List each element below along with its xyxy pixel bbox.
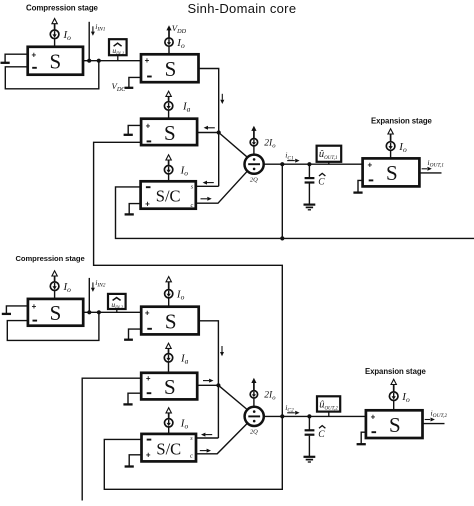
annotation arrow out of c-pin (right)	[201, 198, 208, 200]
capacitor C2-hat	[307, 414, 311, 418]
svg-text:Compression stage: Compression stage	[16, 254, 85, 263]
wire: uOUT1 box stem	[328, 162, 330, 164]
svg-text:+: +	[31, 51, 36, 60]
wire: U4 - input feedback from node C1, runs to right edge	[116, 187, 474, 239]
junction node C1	[280, 162, 284, 166]
S block U12 expansion stage (bottom)	[366, 410, 423, 438]
wire: diagonal node B1 to divider U5	[219, 133, 248, 158]
svg-text:S/C: S/C	[156, 187, 181, 206]
svg-text:S: S	[50, 301, 62, 325]
annotation arrow into s-pin of U10 (left)	[205, 434, 212, 436]
pin - of U9	[147, 392, 152, 394]
wire: uOUT2 box stem	[328, 412, 330, 417]
wire: U7 output node A2	[83, 311, 141, 313]
svg-text:S: S	[164, 121, 176, 145]
current source Io of S/C block U4 (top)	[168, 174, 170, 181]
two-quadrant divider U11 (bottom)	[245, 407, 264, 426]
annotation arrow into s-pin (left)	[207, 182, 214, 184]
wire: uIN2 box stem	[116, 309, 118, 312]
svg-text:+: +	[146, 451, 151, 460]
current source Io of S/C block U10 (bottom)	[168, 427, 170, 434]
wire: iIN2 injection line	[88, 278, 90, 312]
pin - of U7	[33, 320, 38, 322]
svg-text:2Q: 2Q	[250, 429, 258, 436]
voltage probe box uOUT1	[317, 146, 342, 162]
annotation arrow into U3 right side (left)	[208, 127, 215, 129]
pin - of U6	[369, 179, 374, 181]
pin - of U12	[372, 431, 377, 433]
wire: s-pin of U10 from node B2 vertical	[196, 437, 218, 439]
svg-text:+: +	[32, 302, 37, 311]
current source 2Io of divider U11 (bottom)	[253, 398, 255, 407]
svg-text:S: S	[386, 161, 398, 185]
wire: U10 - input feedback from node C2	[104, 416, 282, 489]
annotation arrow iOUT2 (right)	[425, 419, 430, 421]
svg-text:Expansion stage: Expansion stage	[365, 367, 427, 376]
S/C block U4 (top)	[141, 181, 196, 208]
junction node A2 dot 2	[97, 310, 101, 314]
wire: diagonal node B2 to divider U11	[218, 385, 247, 409]
wire: U3 output to node B1	[197, 132, 219, 134]
current source Io of S block U8 (bottom)	[168, 298, 170, 307]
svg-text:+: +	[371, 413, 376, 422]
svg-text:+: +	[145, 308, 150, 317]
label C2-hat	[319, 426, 325, 429]
wire: divider U5 output to expansion stage, node C1	[264, 163, 363, 165]
wire: node C1 drop to feedback line	[281, 164, 283, 238]
S/C block U10 (bottom)	[142, 434, 197, 462]
ground terminal of U6 (- input)	[358, 180, 363, 192]
annotation arrow on U8 output (down)	[221, 346, 223, 352]
current source Ia of S block U9 (bottom)	[168, 362, 170, 373]
pin - of U3	[147, 140, 152, 142]
wire: c-pin of U4 to divider U5 (diagonal)	[196, 171, 248, 203]
svg-text:Expansion stage: Expansion stage	[371, 116, 433, 125]
current source Io of expansion S block U6 (top)	[390, 150, 392, 158]
pin - of U2	[147, 76, 152, 78]
svg-text:S: S	[165, 309, 177, 333]
ground terminal of U3 (+ input)	[128, 125, 141, 134]
S block U9 (bottom)	[141, 373, 197, 400]
VDC terminal of U8 (- input)	[129, 329, 142, 339]
svg-text:+: +	[146, 121, 151, 130]
ground terminal of U10 (+ input)	[129, 455, 141, 466]
svg-text:S: S	[165, 57, 177, 81]
svg-text:C: C	[318, 178, 325, 188]
annotation arrow on U2 output (down)	[221, 94, 223, 100]
wire: c-pin of U10 to divider U11 (diagonal)	[196, 423, 247, 454]
input terminal of U7 (+ input)	[6, 306, 28, 314]
svg-text:S/C: S/C	[156, 439, 181, 458]
pin - of U8	[147, 328, 152, 330]
current source Io with VDD of S block U2 (top)	[168, 46, 170, 54]
svg-text:2Q: 2Q	[250, 176, 258, 183]
svg-text:c: c	[190, 453, 193, 460]
svg-text:+: +	[146, 374, 151, 383]
wire: U8 output down to node B2 and S/C2 s-pin	[199, 321, 219, 438]
S block U7 compression stage (bottom)	[28, 299, 83, 326]
ground of capacitor C1-hat	[304, 204, 316, 206]
wire: s-pin of U4 from node B1 vertical	[196, 185, 219, 187]
svg-text:S: S	[389, 413, 401, 437]
feedback wire of U1 (- input loop)	[5, 61, 99, 89]
VDC terminal of U2 (- input)	[129, 77, 141, 87]
S block U6 expansion stage (top)	[363, 158, 420, 186]
wire: iOUT2 output of U12	[423, 423, 445, 425]
svg-text:+: +	[145, 56, 150, 65]
svg-text:+: +	[145, 199, 150, 208]
ground of capacitor C2-hat	[304, 456, 316, 458]
svg-text:S: S	[49, 50, 61, 74]
S block U2 (top, first integrator input cell)	[141, 54, 199, 82]
annotation arrow iC1 (right)	[287, 160, 295, 162]
annotation arrow out of c-pin of U10 (right)	[200, 450, 207, 452]
wire: U2 output down to node B1 and S/C s-pin	[199, 69, 219, 187]
wire: iIN1 injection line	[88, 22, 90, 61]
svg-text:C: C	[318, 430, 325, 440]
ground terminal of U12 (- input)	[361, 432, 366, 444]
svg-text:c: c	[191, 202, 194, 209]
annotation arrow iC2 (right)	[287, 412, 295, 414]
ground terminal of U4 (+ input)	[129, 204, 140, 214]
voltage probe box uIN1	[109, 39, 127, 55]
junction node B2	[216, 383, 220, 387]
current source Ia of S block U3 (top)	[168, 110, 170, 119]
pin - of U1	[32, 67, 37, 69]
annotation arrow out of U9 right side (right)	[203, 380, 209, 382]
annotation arrow iIN2	[92, 282, 94, 288]
terminal of U9 (- input)	[128, 393, 141, 404]
svg-text:Compression stage: Compression stage	[26, 4, 99, 13]
junction node A1 dot 1	[87, 59, 91, 63]
current source 2Io of divider U5 (top)	[253, 146, 255, 155]
svg-text:Sinh-Domain core: Sinh-Domain core	[188, 1, 297, 16]
current source Io of compression S block (top)	[54, 39, 56, 47]
two-quadrant divider U5 (top)	[245, 155, 264, 174]
S block U1 compression stage (top)	[28, 47, 83, 75]
annotation arrow iOUT1 (right)	[422, 168, 427, 170]
junction dot C1 feedback	[280, 236, 284, 240]
current source Io of expansion S block U12 (bottom)	[393, 401, 395, 411]
wire: U9 output to node B2	[197, 384, 218, 386]
voltage probe box uOUT2	[317, 396, 340, 411]
wire: U1 output node A1	[83, 60, 141, 62]
junction node B1	[217, 130, 221, 134]
S block U8 (bottom, integrator input cell)	[141, 307, 199, 335]
wire: iOUT1 output of U6	[419, 172, 441, 174]
input terminal of U1 (+ input)	[5, 54, 28, 63]
junction node A2 dot 1	[87, 310, 91, 314]
feedback wire of U7 (- input loop)	[7, 312, 99, 340]
S block U3 (top)	[141, 119, 197, 145]
wire: U3 - input cross-coupling from node C2 (bottom output)	[94, 142, 283, 416]
svg-text:S: S	[164, 375, 176, 399]
junction node A1 dot 2	[97, 59, 101, 63]
wire: U9 + input cross-coupling from node C1 drop line	[82, 378, 141, 500]
current source Io of compression S block U7 (bottom)	[54, 291, 56, 299]
svg-text:+: +	[367, 161, 372, 170]
label C1-hat	[319, 173, 325, 176]
wire: uIN1 box stem	[117, 55, 119, 61]
voltage probe box uIN2	[108, 294, 126, 309]
pin - of U10	[147, 439, 152, 441]
annotation arrow iIN1	[92, 26, 94, 32]
pin - of U4	[146, 186, 151, 188]
junction node C2	[280, 414, 284, 418]
wire: divider U11 output to expansion stage, node C2	[264, 415, 366, 417]
capacitor C1-hat	[307, 162, 311, 166]
